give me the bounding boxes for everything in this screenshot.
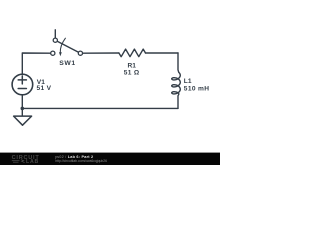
wire resistor to inductor — [146, 52, 179, 54]
voltage source V1 — [12, 74, 33, 95]
switch SW1 left throw terminal — [51, 51, 55, 55]
switch SW1 blade — [57, 41, 78, 52]
svg-text:51 V: 51 V — [37, 85, 52, 92]
inductor L1 — [172, 53, 181, 108]
switch SW1 common terminal — [78, 51, 82, 55]
svg-text:51 Ω: 51 Ω — [124, 70, 140, 77]
footer logo LAB — [12, 161, 20, 163]
switch SW1 top throw terminal — [53, 38, 57, 42]
wire V1 top to switch — [22, 53, 50, 74]
svg-text:510 mH: 510 mH — [184, 85, 210, 92]
switch SW1 actuation arrow head — [59, 52, 62, 56]
ground — [14, 116, 32, 125]
wire bottom — [22, 107, 178, 109]
labels — [37, 60, 210, 92]
footer bar — [0, 153, 220, 165]
svg-text:http://circuitlab.com/cwa6cqjq: http://circuitlab.com/cwa6cqjqub26 — [55, 159, 107, 163]
node junction at V1 negative / bottom net — [21, 107, 25, 111]
svg-text:LAB: LAB — [26, 159, 39, 165]
resistor R1 — [119, 49, 146, 57]
switch SW1 motion arc — [60, 38, 65, 52]
svg-text:SW1: SW1 — [59, 60, 75, 67]
switch SW1 stub — [54, 30, 56, 38]
wire switch to resistor — [83, 52, 119, 54]
wire V1 bottom to ground — [21, 95, 23, 116]
svg-text:L1: L1 — [184, 78, 192, 85]
footer logo bolt — [21, 160, 25, 163]
